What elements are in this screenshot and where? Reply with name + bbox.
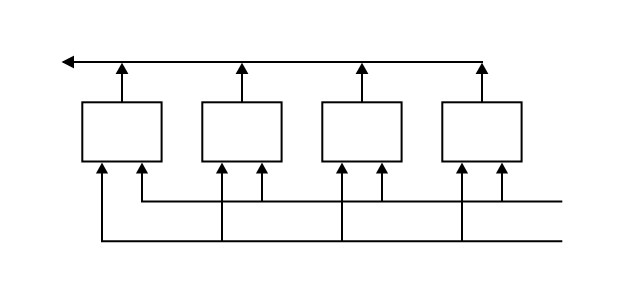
top bus wire [63,61,483,63]
lower bus wire (from block 1 left input, runs right) [102,173,562,242]
block 2 [202,102,281,161]
arrowhead: block 1 output into top bus [116,63,129,74]
wire: block 3 output to top bus [361,73,363,103]
arrowhead: upper bus into block 3 right input [376,163,388,174]
wire: upper bus to block 2 right input [261,173,263,202]
arrowhead: block 4 output into top bus [476,63,489,74]
wire: lower bus to block 3 left input [341,173,343,242]
arrowhead: lower bus into block 3 left input [336,163,348,174]
arrowhead: upper bus into block 2 right input [256,163,268,174]
arrowhead: lower bus into block 4 left input [456,163,468,174]
left arrowhead on top bus [62,56,75,69]
wire: upper bus to block 3 right input [381,173,383,202]
upper bus wire (from block 1 right input, runs right) [142,173,562,202]
arrowhead: lower bus into block 2 left input [216,163,228,174]
arrowhead: block 2 output into top bus [236,63,249,74]
block 3 [322,102,401,161]
wire: block 1 output to top bus [121,73,123,103]
wire: upper bus to block 4 right input [501,173,503,202]
block 4 [442,102,521,161]
wire: block 4 output to top bus [481,73,483,103]
wire: block 2 output to top bus [241,73,243,103]
arrowhead: upper bus into block 4 right input [496,163,508,174]
wire: lower bus to block 2 left input [221,173,223,242]
arrowhead: upper bus into block 1 right input [136,163,148,174]
arrowhead: block 3 output into top bus [356,63,369,74]
block 1 [82,102,161,161]
arrowhead: lower bus into block 1 left input [96,163,108,174]
wire: lower bus to block 4 left input [461,173,463,242]
